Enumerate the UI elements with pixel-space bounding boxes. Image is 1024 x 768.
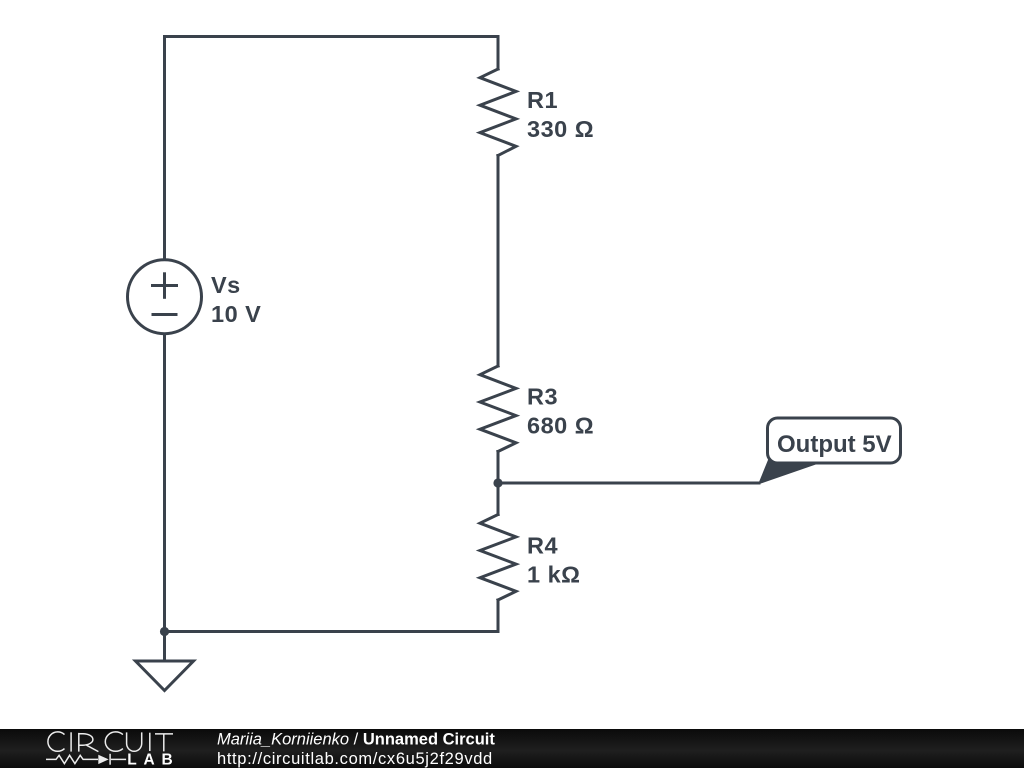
wire R3 to R4 — [497, 452, 500, 515]
wire output — [498, 482, 759, 485]
wire bottom — [165, 630, 499, 633]
svg-text:10 V: 10 V — [211, 301, 261, 327]
voltage source Vs circle — [128, 260, 202, 334]
logo CIRCUIT lettering — [48, 732, 173, 752]
svg-text:Vs: Vs — [211, 272, 241, 298]
svg-text:LAB: LAB — [127, 752, 179, 768]
wire R1 to R3 — [497, 156, 500, 367]
resistor R1 — [480, 69, 516, 156]
wire right top — [497, 37, 500, 70]
wire left lower — [163, 334, 166, 632]
wire left upper — [163, 37, 166, 260]
voltage source minus sign — [153, 313, 176, 316]
svg-text:R3: R3 — [527, 384, 558, 410]
svg-text:R4: R4 — [527, 533, 558, 559]
ground symbol — [136, 661, 194, 691]
node junction at output — [493, 478, 502, 487]
node junction bottom left — [160, 627, 169, 636]
svg-text:1 kΩ: 1 kΩ — [527, 562, 581, 588]
flag Output 5V box — [768, 418, 901, 463]
ground wire stub — [163, 632, 166, 662]
svg-text:Mariia_Korniienko / Unnamed Ci: Mariia_Korniienko / Unnamed Circuit — [217, 731, 495, 749]
footer bar — [0, 729, 1024, 768]
voltage source plus sign — [153, 284, 177, 287]
wire R4 to bottom — [497, 600, 500, 632]
svg-text:680 Ω: 680 Ω — [527, 413, 594, 439]
logo resistor-diode symbol — [46, 754, 126, 765]
resistor R4 — [480, 515, 516, 601]
svg-text:Output 5V: Output 5V — [777, 431, 892, 458]
logo diode triangle — [98, 755, 108, 764]
resistor R3 — [480, 366, 516, 452]
svg-text:R1: R1 — [527, 87, 558, 113]
wire top — [165, 35, 499, 38]
svg-text:330 Ω: 330 Ω — [527, 116, 594, 142]
flag Output 5V tail — [758, 455, 823, 485]
svg-text:http://circuitlab.com/cx6u5j2f: http://circuitlab.com/cx6u5j2f29vdd — [217, 750, 493, 768]
